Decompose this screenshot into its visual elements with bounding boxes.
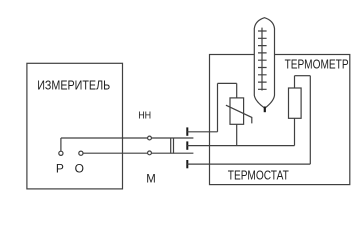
thermometer TH1 (glass thermometer symbol) (254, 18, 274, 109)
wire bottom plug lead from terminal O (83, 152, 193, 154)
wire net3 top run (295, 75, 311, 77)
thermometer TH1 tail (264, 107, 266, 113)
terminal НН circle on top wire (148, 136, 152, 140)
wire net1 horizontal (187, 131, 217, 133)
thermostat box (ТЕРМОСТАТ chamber) (210, 55, 350, 185)
wire net3 riser (309, 76, 311, 164)
terminal O circle (79, 151, 83, 155)
svg-text:Р: Р (56, 162, 64, 176)
wire resistor top lead (294, 76, 296, 88)
svg-text:ИЗМЕРИТЕЛЬ: ИЗМЕРИТЕЛЬ (37, 78, 110, 93)
connector X1 plug bar 1 (170, 138, 172, 154)
svg-text:НН: НН (138, 109, 151, 121)
svg-text:О: О (75, 162, 84, 176)
connector X1 socket contact 3 (186, 160, 188, 168)
wire thermistor bottom lead (236, 124, 238, 145)
wire net1 riser (217, 83, 219, 131)
connector X1 plug bar 2 (173, 138, 175, 154)
connector X1 socket contact 1 (186, 127, 188, 135)
resistor R1 body (thermometer element) (289, 88, 302, 118)
wire thermistor top lead (236, 83, 238, 98)
wire from terminal P up (60, 138, 62, 151)
svg-text:ТЕРМОМЕТР: ТЕРМОМЕТР (285, 57, 349, 72)
thermistor RK1 body (230, 98, 244, 124)
measurer box (ИЗМЕРИТЕЛЬ unit) (27, 63, 123, 189)
thermometer TH1 scale ticks (258, 31, 267, 89)
thermistor RK1 diagonal stroke (226, 105, 252, 123)
wire net1 top run (218, 82, 237, 84)
terminal P circle (59, 151, 63, 155)
terminal М circle on bottom wire (148, 151, 152, 155)
wire resistor bottom lead (294, 118, 296, 145)
svg-text:ТЕРМОСТАТ: ТЕРМОСТАТ (228, 168, 289, 183)
connector X1 socket contact 2 (186, 141, 188, 149)
svg-text:М: М (146, 172, 156, 186)
wire top plug lead (НН line) (61, 137, 194, 139)
wire net2 horizontal (187, 145, 294, 147)
thermometer TH1 scale line (261, 28, 263, 91)
wire net3 horizontal (187, 163, 310, 165)
